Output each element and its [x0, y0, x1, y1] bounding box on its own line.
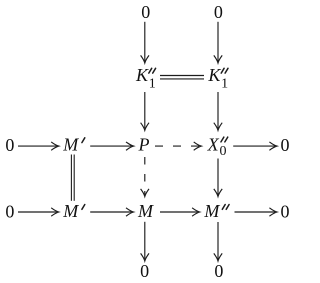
svg-text:X: X	[207, 134, 220, 154]
node X0pp	[207, 134, 228, 159]
svg-text:0: 0	[140, 261, 149, 281]
equality K1pp = K1pp	[160, 76, 204, 79]
svg-text:1: 1	[149, 77, 156, 92]
arrow M to 0 bottom	[144, 222, 146, 259]
svg-text:P: P	[138, 134, 150, 154]
node K1pp left	[135, 65, 156, 91]
svg-text:K: K	[207, 65, 221, 85]
svg-text:0: 0	[5, 135, 14, 155]
svg-text:0: 0	[214, 2, 223, 22]
arrow Mpp to 0 bottom	[217, 222, 219, 259]
equality Mp = Mp vertical	[71, 155, 74, 201]
arrow X0pp to 0 row2	[233, 145, 275, 147]
svg-text:0: 0	[281, 201, 290, 221]
arrow Mp to M	[90, 211, 131, 213]
node K1pp right	[207, 65, 228, 91]
svg-text:M: M	[137, 201, 154, 221]
node Mp row3	[62, 201, 85, 221]
svg-text:0: 0	[5, 201, 14, 221]
arrow 0 to Mp row3	[18, 211, 57, 213]
arrow 0 to Mp row2	[18, 145, 57, 147]
svg-text:0: 0	[281, 135, 290, 155]
arrow Mp to P	[90, 145, 131, 147]
arrow Mpp to 0 row3	[235, 211, 276, 213]
arrow K1pp to P	[144, 92, 146, 128]
svg-text:K: K	[135, 65, 149, 85]
svg-text:0: 0	[214, 261, 223, 281]
svg-text:0: 0	[141, 2, 150, 22]
node Mpp	[203, 201, 229, 221]
arrow K1pp to X0pp	[217, 92, 219, 128]
svg-text:M: M	[62, 201, 79, 221]
svg-text:M: M	[62, 135, 79, 155]
arrow M to Mpp	[160, 211, 198, 213]
dashed arrow P to X0pp	[155, 145, 199, 147]
svg-text:1: 1	[221, 77, 228, 92]
dashed arrow P to M	[144, 157, 146, 195]
arrow 0 to K1pp left	[144, 22, 146, 61]
arrow 0 to K1pp right	[217, 22, 219, 61]
arrow X0pp to Mpp	[217, 159, 219, 195]
node Mp row2	[62, 135, 85, 155]
svg-text:M: M	[203, 201, 220, 221]
svg-text:0: 0	[220, 144, 227, 159]
